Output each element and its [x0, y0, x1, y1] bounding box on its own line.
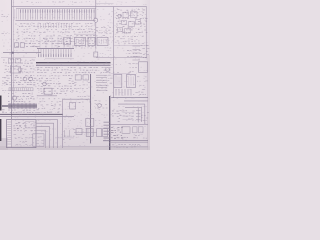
wire horizontal y96: [37, 95, 57, 97]
text row x37-74 y37-44: [38, 38, 71, 43]
marks below tuner box: [115, 36, 144, 43]
capacitor group below transformers: [116, 89, 146, 96]
component column B: [126, 111, 135, 119]
capacitor pair boxes: [97, 129, 108, 137]
wire diagonal feed: [111, 73, 130, 75]
pin list right ladder: [133, 45, 150, 60]
mid right parts y74-88 gap: [137, 77, 148, 85]
text row above double bus: [2, 110, 39, 113]
wire horizontal y57 left: [1, 56, 36, 58]
speckle margin left: [3, 20, 10, 43]
relay boxes K1 K2: [15, 43, 40, 47]
diode D7 circle: [98, 104, 102, 108]
extra marks bottom right y136: [116, 136, 128, 138]
margin marks left: [2, 77, 9, 90]
texture gap zone right of comb: [97, 10, 114, 55]
small parts right of boxes: [133, 136, 147, 138]
transistor Q6: [43, 82, 47, 86]
transistor circle left: [18, 68, 22, 72]
component cluster under pins: [94, 101, 107, 108]
component boxes row x74-90: [74, 75, 90, 92]
IC box row A: [75, 37, 86, 45]
wire heavy double bus bottom: [0, 114, 74, 116]
IC module inner small box: [26, 122, 35, 129]
junction dot bus: [12, 52, 14, 54]
wire faint bottom edge: [63, 146, 110, 148]
box x63 y37: [64, 38, 71, 45]
transistor Q5: [12, 96, 16, 100]
connector strip CN2: [9, 88, 33, 91]
text band bottom right: [112, 144, 140, 147]
box left y66: [11, 66, 21, 73]
component column A: [112, 111, 125, 122]
IC box small center: [44, 88, 52, 94]
wire mid-right horizontal: [96, 57, 147, 59]
component hanging mid: [94, 48, 98, 57]
wire horizontal bus y52: [3, 52, 41, 54]
component labels below top comb: [15, 23, 96, 32]
cluster mid right: [127, 50, 142, 56]
shield outline 4: [37, 130, 46, 148]
tuner box fade: [123, 13, 129, 18]
box row left y58: [9, 58, 21, 63]
wire stubs between columns bottom right: [123, 113, 135, 120]
left mid extra parts: [3, 46, 11, 54]
texture top strip: [13, 2, 146, 5]
wire horizontal y34: [74, 33, 96, 35]
IF transformer T2: [127, 72, 136, 87]
relay box bottom right: [122, 127, 130, 134]
wire horizontal y124: [110, 123, 148, 125]
black scan mark upper: [0, 96, 2, 111]
shield inner box: [33, 134, 44, 146]
overall speckle texture: [13, 9, 148, 146]
label row above top bus: [21, 1, 90, 4]
shield outline 1: [37, 120, 58, 148]
shield outline 2: [37, 123, 54, 148]
wire bus corner 4: [125, 107, 142, 122]
wire heavy double bus: [36, 63, 111, 66]
component field center lower: [38, 98, 61, 108]
capacitor pair bottom right: [133, 127, 143, 133]
wire heavy horizontal y140: [103, 140, 148, 142]
deflection box left edge: [62, 99, 64, 148]
wire second left vertical bus: [13, 0, 15, 105]
texture center box interior: [64, 103, 91, 143]
wire bus corner 1: [111, 97, 148, 99]
ticks left of comb: [15, 9, 19, 20]
component text row below band: [37, 68, 111, 73]
resistor ladder ticks to mid bus: [40, 37, 88, 49]
wire horizontal y142: [110, 142, 148, 144]
resistor row second comb: [38, 23, 72, 28]
IF transformer T1: [113, 72, 122, 87]
connector J1 label: [2, 14, 9, 16]
wire horizontal y132: [74, 131, 97, 133]
pin stubs left of x109: [104, 123, 110, 139]
wire top horizontal bus: [12, 6, 147, 8]
wire left vertical bus: [11, 0, 13, 119]
wire bus corner 2: [124, 100, 148, 102]
wire stub top x96: [96, 3, 114, 5]
IC module U301 box: [7, 120, 37, 148]
wire heavy vertical x109: [109, 96, 111, 150]
wire horizontal y147: [110, 146, 148, 148]
component cluster left upper: [4, 75, 38, 85]
pin stubs across heavy line: [104, 122, 110, 138]
ladder right bottom: [136, 108, 149, 123]
hatched component box: [86, 128, 93, 136]
texture left margin: [2, 11, 12, 93]
IC module inner text: [14, 122, 37, 131]
diode circle mid: [106, 68, 110, 72]
shield outline 3: [37, 127, 50, 148]
small parts center bottom: [63, 129, 76, 139]
left cluster y58-73: [3, 60, 35, 73]
IC module lower interior text: [14, 134, 35, 145]
margin texture y20-56: [2, 22, 8, 40]
text row y110 center: [38, 111, 59, 113]
black scan mark lower: [0, 119, 1, 141]
IC shield box top-right: [114, 7, 147, 98]
IC module dark pin dots: [14, 123, 27, 129]
wire vertical net x90: [90, 74, 92, 144]
component cluster top edge: [77, 96, 90, 102]
transistor Q3 Q4: [23, 77, 32, 81]
small parts row y34: [16, 36, 96, 47]
wire bus corner 3: [118, 104, 145, 124]
wire far right edge line: [147, 70, 149, 150]
resistor bank top row: [16, 9, 96, 21]
box right mid: [139, 62, 148, 73]
IC box row B: [88, 37, 95, 45]
IC box row C: [97, 37, 108, 45]
text row y111: [2, 111, 60, 114]
transistor Q101: [94, 18, 98, 48]
crystal X1 box: [86, 118, 94, 126]
capacitor cluster below tuner: [96, 27, 111, 36]
small box on wire: [76, 129, 82, 135]
component cluster left lower: [8, 94, 35, 102]
component field center: [37, 76, 74, 94]
wire right border: [146, 7, 148, 58]
ladder zone texture: [128, 64, 137, 72]
IC module inner pin column: [7, 120, 11, 148]
wire vertical net at x96: [95, 0, 97, 18]
component box on top edge: [70, 102, 76, 109]
wire horizontal y138 left: [55, 137, 74, 139]
IC pin stubs right of x90: [96, 75, 113, 90]
texture tuner box gaps: [115, 10, 148, 42]
dense cluster bottom right: [111, 127, 123, 138]
tuner cluster components: [116, 10, 147, 33]
heavy bus band left: [2, 103, 37, 109]
capacitor bank mid comb: [37, 49, 74, 59]
marks below module: [20, 143, 38, 147]
deflection box top edge: [63, 98, 91, 100]
test point mark: [2, 32, 7, 34]
